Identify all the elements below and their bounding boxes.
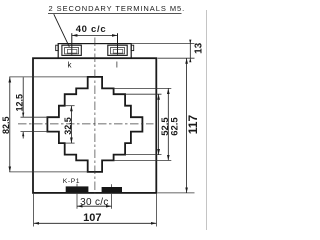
dimension 117 bbox=[158, 58, 201, 193]
terminal k bbox=[62, 45, 81, 55]
leader line from note to terminal k bbox=[54, 14, 70, 47]
horizontal centerline bbox=[18, 123, 154, 125]
dimension 32.5 bbox=[63, 106, 75, 143]
dimension 82.5 bbox=[1, 77, 11, 172]
svg-text:l: l bbox=[116, 60, 118, 69]
vertical centerline bbox=[94, 38, 96, 194]
primary bar P1 (left) bbox=[66, 186, 89, 192]
dimension 30 c/c bbox=[77, 184, 112, 209]
dimension 62.5 bbox=[114, 88, 181, 160]
svg-text:13: 13 bbox=[194, 42, 205, 54]
svg-text:30 c/c: 30 c/c bbox=[80, 197, 108, 208]
svg-text:82.5: 82.5 bbox=[1, 116, 11, 134]
svg-text:32.5: 32.5 bbox=[63, 117, 73, 135]
terminal k center mark bbox=[71, 33, 73, 55]
tab extension lines left bbox=[21, 116, 48, 118]
terminal l center mark bbox=[117, 33, 119, 55]
note: 2 SECONDARY TERMINALS M5. bbox=[48, 4, 185, 14]
svg-text:62.5: 62.5 bbox=[170, 117, 181, 136]
body outline bbox=[33, 58, 156, 193]
dimension 107 bbox=[34, 194, 157, 227]
extension line window bottom bbox=[9, 171, 87, 173]
svg-text:12.5: 12.5 bbox=[14, 94, 24, 112]
primary bar (right) bbox=[102, 187, 122, 192]
svg-text:40 c/c: 40 c/c bbox=[76, 24, 107, 35]
terminal l bbox=[108, 45, 127, 55]
faint page border right bbox=[206, 10, 208, 230]
dimension 13 bbox=[132, 40, 205, 63]
svg-text:K-P1: K-P1 bbox=[63, 178, 80, 185]
dimension 52.5 bbox=[125, 94, 171, 154]
stepped window opening bbox=[47, 77, 142, 172]
svg-text:107: 107 bbox=[83, 212, 101, 224]
dimension 40 c/c bbox=[72, 24, 118, 36]
terminal platform bbox=[56, 44, 134, 59]
dimension 12.5 (tab height) bbox=[14, 77, 24, 138]
svg-text:117: 117 bbox=[186, 115, 200, 135]
svg-text:2 SECONDARY TERMINALS M5.: 2 SECONDARY TERMINALS M5. bbox=[49, 4, 186, 13]
extension line window top bbox=[9, 76, 87, 78]
